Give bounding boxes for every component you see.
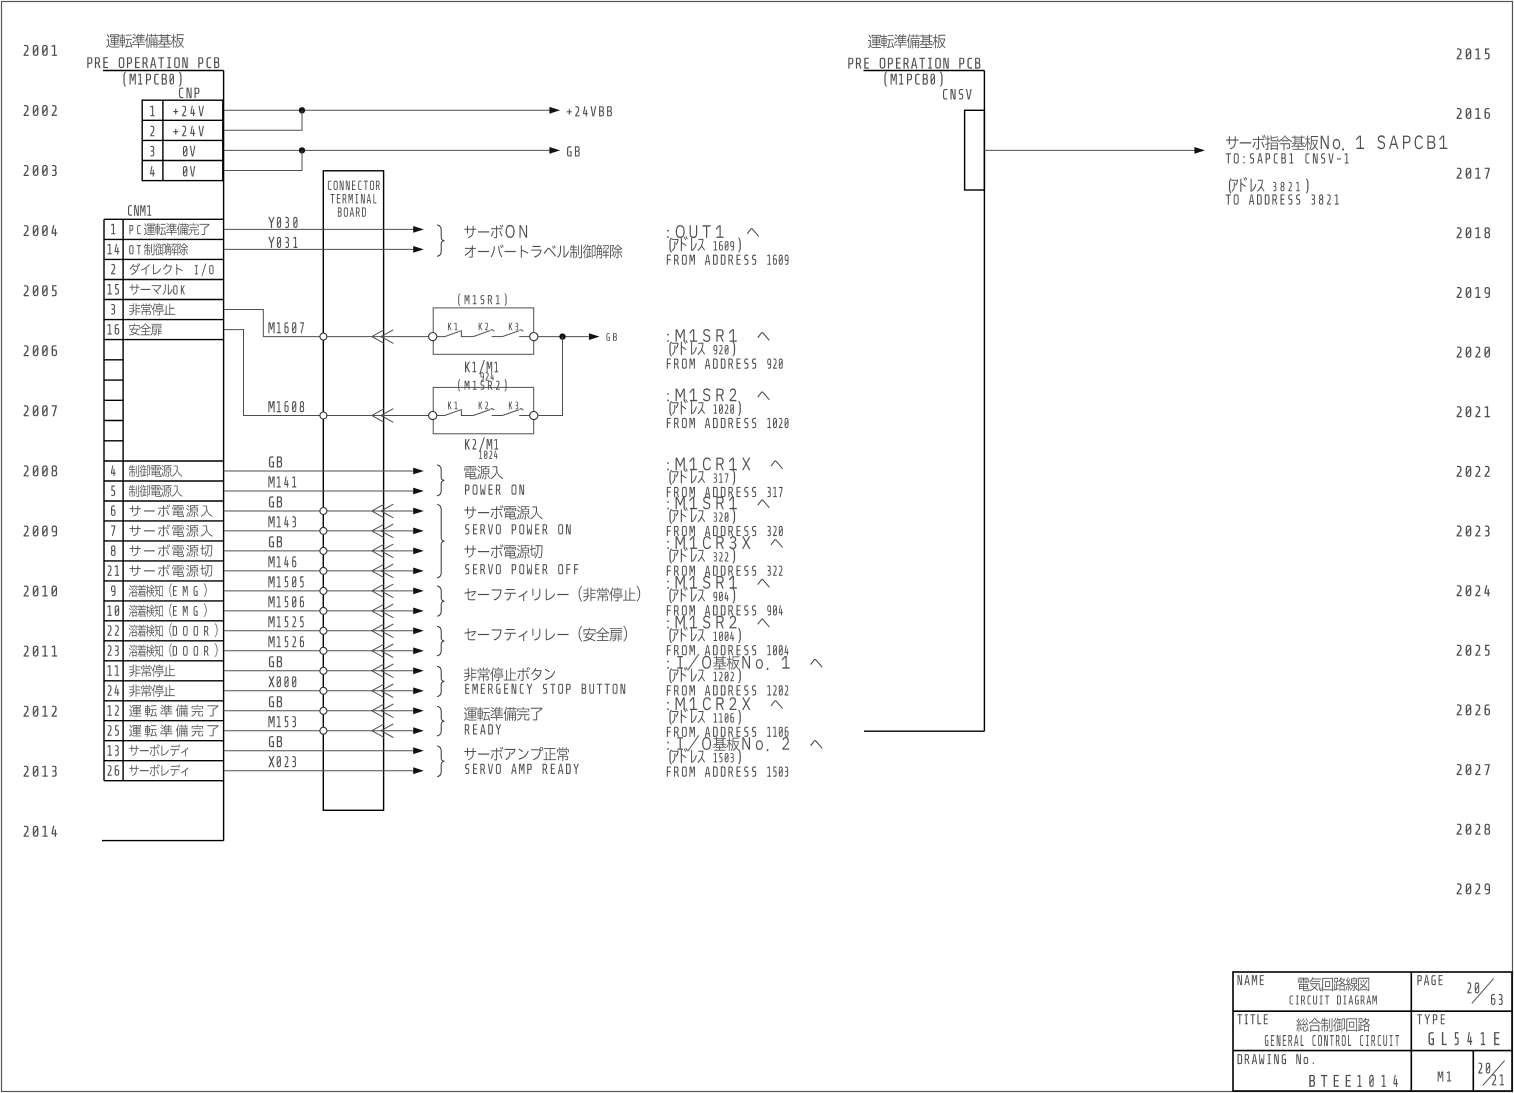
wire M1525 row 22 xyxy=(224,630,414,632)
arrow row 26 xyxy=(413,767,424,774)
chevron connector row 9 xyxy=(372,584,384,598)
chevron connector M1607 xyxy=(372,330,384,344)
terminal circle row 25 xyxy=(320,727,327,734)
arrow row 11 xyxy=(413,667,424,674)
terminal circle M1607 at terminal board xyxy=(320,333,327,340)
left margin line numbers 2001-2014 xyxy=(24,45,58,837)
caption サーボアンプ正常 / SERVO AMP READY xyxy=(464,747,579,774)
annotation M1SR1 320 xyxy=(667,496,769,509)
label GB row 11 xyxy=(269,656,282,667)
chevron connector row 21 xyxy=(372,564,384,578)
title block TITLE cell xyxy=(1237,1014,1268,1024)
label M146 row 21 xyxy=(268,556,296,567)
terminal circle row 24 xyxy=(320,687,327,694)
right PCB subtitle PRE OPERATION PCB xyxy=(848,58,980,69)
arrow row 9 xyxy=(413,588,424,595)
caption サーボ電源切 / SERVO POWER OFF xyxy=(464,544,578,574)
title CIRCUIT DIAGRAM xyxy=(1290,996,1377,1005)
sheet number 20/21 xyxy=(1478,1061,1504,1086)
annotation オーバートラベル制御解除 xyxy=(465,244,623,258)
label K1/M1 coil ref xyxy=(465,360,498,374)
brace servo-on group xyxy=(437,225,444,257)
wire GB row 12 xyxy=(224,710,414,712)
right PCB outline M1PCB0 xyxy=(864,71,985,732)
relay M1SR2 label xyxy=(458,379,506,391)
wire M1607 from CNM1 pin3 非常停止 xyxy=(224,310,429,337)
left PCB outline M1PCB0 xyxy=(102,71,224,841)
annotation M1SR2 1020 xyxy=(667,388,769,401)
label M1505 row 9 xyxy=(268,576,303,587)
label M1526 row 23 xyxy=(268,636,304,647)
annotation I/O基板No.1 1202 xyxy=(667,654,822,670)
label 924 address xyxy=(480,372,494,380)
caption サーボ電源入 / SERVO POWER ON xyxy=(464,505,570,534)
chevron connector row 7 xyxy=(372,524,384,538)
brace 電源入 group xyxy=(437,465,444,496)
CNM1 pin rows 1-16 labels xyxy=(108,223,214,336)
title block TYPE cell xyxy=(1417,1014,1445,1024)
wire Y030 from CNM1 pin1 xyxy=(224,228,414,230)
connector CNP pin table xyxy=(142,100,223,180)
label M143 row 7 xyxy=(268,516,296,527)
label 1024 address xyxy=(479,451,498,459)
label GB row 8 xyxy=(269,536,282,547)
brace セーフティリレー非常停止 group xyxy=(437,586,444,616)
annotation サーボ指令基板No.1 SAPCB1 xyxy=(1226,135,1447,151)
arrow Y031 xyxy=(413,246,424,253)
arrow row 7 xyxy=(413,528,424,535)
brace サーボ電源 group xyxy=(437,504,444,578)
arrow GB top xyxy=(549,147,560,154)
connector CNSV body xyxy=(965,110,985,190)
type GL541E xyxy=(1429,1032,1500,1045)
wire M1SR1 to GB xyxy=(538,336,589,338)
brace 非常停止ボタン group xyxy=(437,666,444,697)
brace サーボアンプ正常 group xyxy=(437,746,444,777)
title 総合制御回路 xyxy=(1296,1018,1370,1032)
arrow row 21 xyxy=(413,568,424,575)
title GENERAL CONTROL CIRCUIT xyxy=(1265,1035,1399,1046)
arrow row 6 xyxy=(413,508,424,515)
arrow to SAPCB1 xyxy=(1194,147,1205,154)
label GB row 12 xyxy=(269,696,282,707)
net label GB top xyxy=(567,146,580,156)
arrow row 4 xyxy=(413,468,424,475)
arrow row 24 xyxy=(413,687,424,694)
left PCB (M1PCB0) designator xyxy=(123,72,181,87)
relay M1SR1 right terminal xyxy=(530,333,538,341)
CONNECTOR TERMINAL BOARD box xyxy=(323,171,383,811)
chevron connector row 12 xyxy=(372,704,384,718)
annotation アドレス 3821 xyxy=(1229,177,1309,193)
wire CNP pin2 +24V joining pin1 xyxy=(224,110,302,130)
CNP pin numbers and net names xyxy=(150,106,204,177)
annotation I/O基板No.2 1503 xyxy=(667,735,822,751)
title block PAGE cell xyxy=(1417,975,1442,985)
arrow row 23 xyxy=(413,647,424,654)
terminal circle row 12 xyxy=(320,707,327,714)
wire X023 row 26 xyxy=(224,770,414,772)
brace 運転準備完了 group xyxy=(437,706,444,736)
terminal circle row 8 xyxy=(320,547,327,554)
wire GB row 6 xyxy=(224,510,414,512)
right PCB title 運転準備基板 xyxy=(868,34,946,48)
right margin line numbers 2015-2029 xyxy=(1457,48,1491,894)
label GB row 13 xyxy=(269,736,282,747)
title block DRAWING No. cell xyxy=(1238,1054,1314,1064)
title 電気回路線図 xyxy=(1298,977,1369,991)
chevron connector row 22 xyxy=(372,624,384,638)
drawing number BTEE1014 xyxy=(1309,1075,1398,1087)
caption 非常停止ボタン / EMERGENCY STOP BUTTON xyxy=(464,667,625,694)
terminal circle row 23 xyxy=(320,647,327,654)
label GB row 6 xyxy=(269,496,282,507)
label M153 row 25 xyxy=(268,716,296,727)
sheet M1 xyxy=(1438,1072,1451,1082)
wire M1SR2 output up to junction xyxy=(538,337,563,416)
label M141 row 5 xyxy=(268,476,296,487)
chevron connector row 10 xyxy=(372,604,384,618)
wire M1506 row 10 xyxy=(224,610,414,612)
annotation M1CR3X 322 xyxy=(667,536,783,549)
junction node pins 3-4 xyxy=(299,147,305,153)
arrow row 13 xyxy=(413,747,424,754)
relay M1SR2 contacts K1 K2 K3 xyxy=(437,402,530,416)
arrow row 5 xyxy=(413,488,424,495)
chevron connector row 23 xyxy=(372,644,384,658)
terminal circle row 22 xyxy=(320,627,327,634)
CNM1 pin rows 4-26 labels xyxy=(108,465,219,777)
annotation M1CR2X 1106 xyxy=(667,697,783,710)
annotation TO ADDRESS 3821 xyxy=(1226,194,1339,204)
wire Y031 from CNM1 pin14 xyxy=(224,248,414,250)
label M1506 row 10 xyxy=(268,596,304,607)
page number 20/63 xyxy=(1467,979,1502,1005)
arrow row 12 xyxy=(413,707,424,714)
relay M1SR2 contact box xyxy=(433,387,534,433)
chevron connector row 8 xyxy=(372,544,384,558)
right PCB (M1PCB0) designator xyxy=(884,72,942,87)
wire X000 row 24 xyxy=(224,690,414,692)
annotation TO:SAPCB1 CNSV-1 xyxy=(1226,153,1349,163)
caption セーフティリレー（安全扉） xyxy=(464,626,627,642)
relay M1SR2 right terminal xyxy=(530,411,538,419)
wire M1608 from CNM1 pin16 安全扉 xyxy=(224,330,429,416)
terminal circle row 7 xyxy=(320,527,327,534)
left PCB title 運転準備基板 xyxy=(106,34,184,48)
label K2/M1 coil ref xyxy=(465,437,498,451)
chevron connector row 25 xyxy=(372,724,384,738)
terminal circle row 6 xyxy=(320,508,327,515)
connector label CNM1 xyxy=(128,205,151,216)
annotation M1SR1 904 xyxy=(667,576,769,589)
terminal circle row 9 xyxy=(320,587,327,594)
title block frame xyxy=(1233,972,1512,1091)
wire GB row 11 xyxy=(224,670,414,672)
terminal circle M1608 at terminal board xyxy=(320,412,327,419)
wire GB row 4 xyxy=(224,470,414,472)
junction node M1SR1/M1SR2 output xyxy=(559,333,565,339)
wire CNP pin3 0V to GB xyxy=(224,149,559,151)
annotation M1CR1X 317 xyxy=(667,457,783,470)
annotation M1SR1 920 xyxy=(667,329,769,342)
wire M143 row 7 xyxy=(224,530,414,532)
terminal circle row 21 xyxy=(320,567,327,574)
label Y031 xyxy=(268,237,297,248)
connector label CNSV xyxy=(943,89,972,100)
caption セーフティリレー（非常停止） xyxy=(464,586,640,602)
relay M1SR1 contact box xyxy=(433,308,534,354)
wire M146 row 21 xyxy=(224,570,414,572)
arrow row 25 xyxy=(413,727,424,734)
arrow row 8 xyxy=(413,548,424,555)
CONNECTOR TERMINAL BOARD caption xyxy=(328,181,380,217)
arrow row 10 xyxy=(413,608,424,615)
label M1608 xyxy=(268,401,304,412)
wire CNP pin1 +24V to +24VBB xyxy=(224,109,559,111)
wire GB row 13 xyxy=(224,750,414,752)
terminal circle row 11 xyxy=(320,667,327,674)
arrow Y030 xyxy=(413,226,424,233)
arrow GB M1SR1 xyxy=(589,333,600,340)
wire M141 row 5 xyxy=(224,490,414,492)
label GB row 4 xyxy=(269,456,282,467)
wire GB row 8 xyxy=(224,550,414,552)
label M1607 xyxy=(268,322,303,333)
wire M1526 row 23 xyxy=(224,650,414,652)
chevron connector row 24 xyxy=(372,684,384,698)
relay M1SR2 left terminal xyxy=(429,411,437,419)
connector label CNP xyxy=(179,88,199,99)
relay M1SR1 label xyxy=(458,294,506,306)
annotation OUT1 xyxy=(667,225,759,238)
connector CNM1 pin table frame xyxy=(104,219,224,780)
label M1525 row 22 xyxy=(268,616,303,627)
arrow row 22 xyxy=(413,627,424,634)
caption 電源入 / POWER ON xyxy=(464,466,524,495)
wire M153 row 25 xyxy=(224,730,414,732)
label Y030 xyxy=(268,217,297,228)
junction node pins 1-2 xyxy=(299,107,305,113)
chevron connector row 11 xyxy=(372,664,384,678)
label X023 row 26 xyxy=(268,756,296,767)
annotation M1SR2 1004 xyxy=(667,616,769,629)
brace セーフティリレー安全扉 group xyxy=(437,626,444,656)
net label GB M1SR1 xyxy=(606,333,616,341)
label X000 row 24 xyxy=(268,676,296,687)
net label +24VBB xyxy=(567,106,612,116)
chevron connector M1608 xyxy=(372,409,384,423)
wire M1505 row 9 xyxy=(224,590,414,592)
relay M1SR1 contacts K1 K2 K3 xyxy=(437,323,530,337)
relay M1SR1 left terminal xyxy=(429,333,437,341)
wire CNP pin4 0V joining pin3 xyxy=(224,150,302,170)
chevron connector row 6 xyxy=(372,504,384,518)
caption 運転準備完了 / READY xyxy=(464,707,543,735)
arrow +24VBB xyxy=(549,107,560,114)
wire CNSV to SAPCB1 xyxy=(984,149,1194,151)
annotation サーボＯＮ xyxy=(464,225,527,239)
terminal circle row 10 xyxy=(320,607,327,614)
title block NAME cell xyxy=(1238,975,1264,985)
left PCB subtitle PRE OPERATION PCB xyxy=(87,57,219,68)
